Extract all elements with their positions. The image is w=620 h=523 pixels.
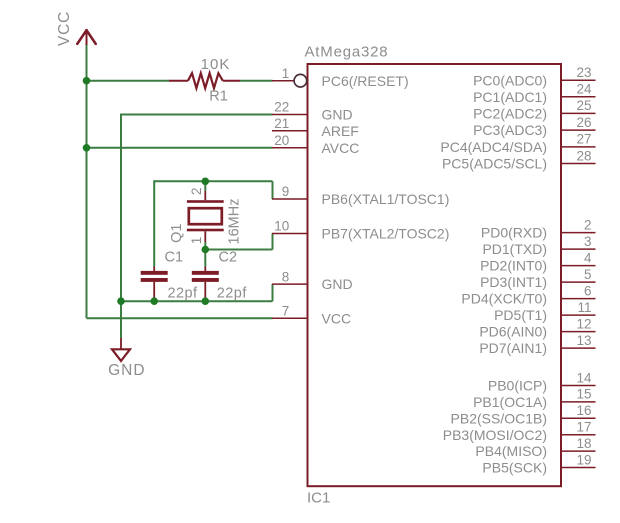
svg-text:2: 2 [189, 188, 204, 196]
capacitor C1 [141, 267, 168, 299]
svg-text:PD0(RXD): PD0(RXD) [481, 225, 547, 241]
svg-text:10K: 10K [201, 56, 231, 73]
svg-text:11: 11 [577, 300, 591, 315]
wire: crystal top link [204, 181, 206, 191]
svg-text:22: 22 [274, 100, 289, 115]
svg-text:PB3(MOSI/OC2): PB3(MOSI/OC2) [443, 427, 547, 443]
svg-text:15: 15 [576, 387, 591, 402]
svg-text:AREF: AREF [322, 123, 359, 139]
pin 1 inversion bubble [294, 74, 307, 87]
svg-text:21: 21 [274, 116, 289, 131]
pin 17 PB3(MOSI/OC2) (right) [443, 420, 596, 443]
svg-text:PC1(ADC1): PC1(ADC1) [473, 89, 547, 105]
pin 6 PD4(XCK/T0) (right) [461, 283, 595, 306]
svg-text:PD7(AIN1): PD7(AIN1) [479, 340, 547, 356]
svg-text:3: 3 [584, 234, 592, 249]
pin 12 PD6(AIN0) (right) [479, 316, 595, 339]
pin 25 PC2(ADC2) (right) [473, 98, 595, 121]
svg-text:16MHz: 16MHz [226, 199, 242, 245]
wire: crystal bottom link [204, 242, 206, 250]
svg-text:PB0(ICP): PB0(ICP) [488, 378, 547, 394]
wire: C2 top drop [204, 250, 206, 267]
pin 18 PB4(MISO) (right) [475, 436, 595, 459]
pin 9 PB6(XTAL1/TOSC1) (left) [272, 184, 449, 207]
resistor R1 [188, 73, 223, 88]
wire: AVCC net [87, 147, 273, 149]
pin 27 PC4(ADC4/SDA) (right) [440, 132, 595, 155]
pin 1 PC6(/RESET) (left) [272, 66, 409, 89]
svg-text:2: 2 [584, 217, 592, 232]
wire: R1 to pin 1 [240, 80, 273, 82]
svg-text:27: 27 [576, 132, 591, 147]
pin 21 AREF (left) [272, 116, 359, 139]
svg-text:1: 1 [189, 237, 204, 245]
svg-text:28: 28 [576, 148, 591, 163]
svg-text:1: 1 [282, 66, 290, 81]
svg-text:12: 12 [576, 316, 591, 331]
wire: GND bus rise to pin 8 [272, 284, 274, 301]
svg-text:Q1: Q1 [169, 224, 185, 243]
svg-text:22pf: 22pf [167, 286, 198, 302]
junction VCC/R1 [83, 77, 91, 85]
pin 2 PD0(RXD) (right) [481, 217, 596, 240]
svg-text:PC6(/RESET): PC6(/RESET) [322, 73, 409, 89]
junction XTAL1 node [202, 178, 210, 186]
wire: XTAL2 net horizontal [205, 249, 272, 251]
svg-text:8: 8 [282, 269, 290, 284]
wire: XTAL1 jog down to pin 9 [272, 181, 274, 199]
svg-text:4: 4 [584, 250, 592, 265]
capacitor C2 [192, 267, 219, 299]
svg-text:AtMega328: AtMega328 [305, 44, 389, 61]
svg-text:PC5(ADC5/SCL): PC5(ADC5/SCL) [442, 156, 547, 172]
pin 7 VCC (left) [272, 304, 351, 327]
svg-text:14: 14 [576, 370, 592, 385]
svg-text:22pf: 22pf [217, 286, 248, 302]
svg-text:PC4(ADC4/SDA): PC4(ADC4/SDA) [440, 139, 547, 155]
pin 8 GND (left) [272, 269, 353, 292]
svg-text:PB2(SS/OC1B): PB2(SS/OC1B) [451, 410, 547, 426]
svg-text:17: 17 [576, 420, 591, 435]
svg-text:R1: R1 [209, 89, 228, 105]
wire: drop to ground symbol [120, 301, 122, 338]
svg-text:AVCC: AVCC [322, 140, 360, 156]
wire: bottom GND bus [121, 300, 273, 302]
pin 22 GND (left) [272, 100, 353, 123]
wire: VCC rail to R1 [87, 80, 170, 82]
pin 10 PB7(XTAL2/TOSC2) (left) [272, 219, 449, 242]
svg-text:VCC: VCC [322, 310, 352, 326]
svg-text:PB5(SCK): PB5(SCK) [482, 460, 547, 476]
svg-text:C1: C1 [165, 250, 184, 266]
svg-text:19: 19 [576, 452, 591, 467]
svg-text:6: 6 [584, 283, 592, 298]
svg-text:10: 10 [274, 219, 289, 234]
pin 4 PD2(INT0) (right) [480, 250, 595, 273]
wire: GND pin22 horizontal [121, 114, 273, 116]
svg-text:24: 24 [576, 82, 592, 97]
wire: C1 top drop [153, 180, 155, 266]
svg-text:9: 9 [282, 184, 290, 199]
crystal Q1 [187, 191, 224, 242]
pin 26 PC3(ADC3) (right) [473, 115, 595, 138]
power VCC symbol [77, 30, 95, 46]
svg-text:25: 25 [576, 98, 591, 113]
wire: VCC rail vertical [86, 45, 88, 318]
svg-text:23: 23 [576, 65, 591, 80]
junction VCC/AVCC [83, 144, 91, 152]
svg-text:20: 20 [274, 133, 289, 148]
svg-text:PC0(ADC0): PC0(ADC0) [473, 72, 547, 88]
svg-text:16: 16 [576, 403, 591, 418]
pin 5 PD3(INT1) (right) [480, 267, 595, 290]
pin 13 PD7(AIN1) (right) [479, 333, 595, 356]
wire: XTAL2 jog up to pin 10 [272, 234, 274, 250]
wire: GND pin22 vertical drop [120, 114, 122, 302]
svg-text:PD3(INT1): PD3(INT1) [480, 274, 547, 290]
svg-text:PB1(OC1A): PB1(OC1A) [473, 394, 547, 410]
svg-text:C2: C2 [219, 250, 238, 266]
svg-text:PD2(INT0): PD2(INT0) [480, 258, 547, 274]
junction GND bus left [117, 297, 125, 305]
pin 15 PB1(OC1A) (right) [473, 387, 595, 410]
pin 16 PB2(SS/OC1B) (right) [451, 403, 596, 426]
junction C2/GND bus [202, 297, 210, 305]
pin 14 PB0(ICP) (right) [488, 370, 596, 393]
svg-text:18: 18 [576, 436, 591, 451]
svg-text:PB6(XTAL1/TOSC1): PB6(XTAL1/TOSC1) [322, 191, 450, 207]
pin 23 PC0(ADC0) (right) [473, 65, 595, 88]
junction XTAL2 node [202, 246, 210, 254]
svg-text:5: 5 [584, 267, 592, 282]
svg-text:VCC: VCC [56, 11, 73, 46]
svg-text:GND: GND [322, 276, 353, 292]
svg-text:13: 13 [576, 333, 591, 348]
svg-text:PD5(T1): PD5(T1) [494, 307, 547, 323]
ground symbol [112, 338, 130, 361]
wire: XTAL1 net horizontal [154, 180, 272, 182]
wire: VCC to pin 7 [87, 317, 273, 319]
svg-text:PB4(MISO): PB4(MISO) [475, 443, 547, 459]
svg-text:GND: GND [108, 362, 145, 379]
pin 20 AVCC (left) [272, 133, 359, 156]
pin 11 PD5(T1) (right) [494, 300, 595, 323]
pin 28 PC5(ADC5/SCL) (right) [442, 148, 596, 171]
junction C1/GND bus [150, 297, 158, 305]
svg-text:PD6(AIN0): PD6(AIN0) [479, 324, 547, 340]
svg-text:PD4(XCK/T0): PD4(XCK/T0) [461, 291, 547, 307]
svg-text:26: 26 [576, 115, 591, 130]
svg-text:PC2(ADC2): PC2(ADC2) [473, 106, 547, 122]
svg-text:PB7(XTAL2/TOSC2): PB7(XTAL2/TOSC2) [322, 226, 450, 242]
svg-text:IC1: IC1 [307, 490, 330, 507]
pin 3 PD1(TXD) (right) [482, 234, 595, 257]
svg-text:GND: GND [322, 107, 353, 123]
svg-text:7: 7 [282, 304, 290, 319]
svg-text:PC3(ADC3): PC3(ADC3) [473, 122, 547, 138]
pin 19 PB5(SCK) (right) [482, 452, 595, 475]
op-amp/IC body U1 AtMega328 [308, 64, 562, 486]
pin 24 PC1(ADC1) (right) [473, 82, 595, 105]
svg-text:PD1(TXD): PD1(TXD) [482, 241, 547, 257]
